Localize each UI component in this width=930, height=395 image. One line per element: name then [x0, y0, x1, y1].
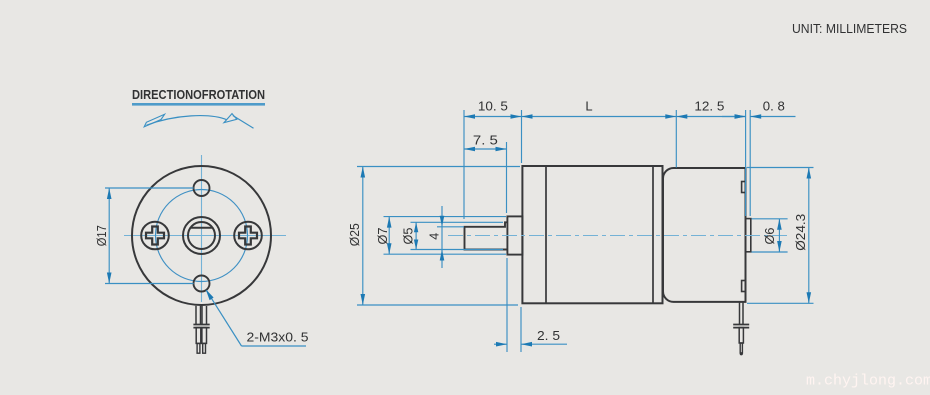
rotation arrow tail	[233, 116, 254, 129]
dim24.3 arrows	[807, 168, 812, 179]
dim 0.8 arrows	[735, 114, 746, 119]
dim5 line	[415, 222, 417, 249]
dim L line	[522, 116, 677, 118]
svg-text:DIRECTIONOFROTATION: DIRECTIONOFROTATION	[132, 87, 265, 102]
dim24.3 line	[808, 168, 810, 304]
side view centerline	[448, 235, 788, 237]
front view vertical centerline	[201, 155, 203, 302]
motor connector pin	[740, 343, 742, 353]
top mounting hole	[194, 180, 210, 196]
svg-text:Ø5: Ø5	[401, 227, 415, 244]
motor terminal tab bottom	[742, 281, 746, 292]
motor terminal tab top	[742, 182, 746, 193]
dim2.5 arrows	[496, 342, 507, 347]
dim6 arrows	[777, 219, 782, 230]
gearbox outline	[522, 166, 662, 303]
svg-text:Ø7: Ø7	[376, 227, 390, 244]
motor wire lines	[739, 302, 741, 325]
dim4 arrows	[440, 216, 445, 227]
dim 10.5 arrows	[464, 114, 475, 119]
dim 12.5 line	[676, 116, 745, 118]
shaft collar	[507, 216, 522, 254]
svg-text:Ø6: Ø6	[763, 227, 777, 244]
svg-text:Ø17: Ø17	[95, 225, 109, 246]
svg-text:4: 4	[428, 233, 442, 240]
bolt circle	[156, 190, 248, 282]
motor connector body	[739, 328, 743, 343]
front view motor face outline	[132, 166, 271, 305]
leader arrow	[206, 289, 214, 300]
dim7 arrows	[387, 217, 392, 228]
front connector crossbar	[193, 324, 209, 326]
left screw	[141, 222, 169, 250]
front view horizontal centerline	[124, 235, 286, 237]
svg-text:m.chyjlong.com: m.chyjlong.com	[806, 373, 930, 390]
dim 0.8 lines	[722, 116, 746, 118]
shaft flat chord	[191, 227, 213, 229]
svg-text:L: L	[585, 99, 592, 114]
ext line collar face top	[506, 142, 508, 213]
dim5 arrows	[414, 222, 418, 232]
dim17 line	[108, 188, 110, 284]
ext line boss face	[749, 110, 751, 216]
front connector pins	[197, 343, 200, 353]
dim5 ext lines	[411, 221, 504, 223]
gearbox front flange line	[545, 166, 547, 303]
dim25 line	[362, 167, 364, 306]
gearbox rear flange line	[652, 166, 654, 303]
output shaft outline	[465, 222, 508, 249]
dim25 arrows	[361, 167, 366, 178]
rotation arrow left head	[144, 114, 164, 127]
leader line	[206, 290, 241, 346]
dim6 line	[778, 219, 780, 252]
dim2.5 lines	[494, 343, 507, 345]
svg-text:Ø25: Ø25	[348, 223, 362, 246]
dim7 line	[388, 217, 390, 255]
svg-text:Ø24.3: Ø24.3	[794, 214, 808, 251]
front connector bodies	[196, 328, 201, 344]
svg-text:7. 5: 7. 5	[473, 132, 498, 147]
svg-text:2-M3x0. 5: 2-M3x0. 5	[247, 330, 309, 345]
rotation arrow right head	[224, 114, 237, 123]
dim L arrows	[522, 114, 533, 119]
dim4 ext line	[437, 226, 464, 228]
ext line motor joint	[675, 110, 677, 168]
dim 12.5 arrows	[676, 114, 687, 119]
label underline	[132, 103, 265, 106]
dim7 ext lines	[384, 216, 507, 218]
shaft boss circle	[183, 217, 220, 254]
front wire lines	[195, 306, 197, 325]
right screw	[234, 222, 262, 250]
shaft circle	[188, 222, 215, 249]
motor connector crossbar	[733, 324, 749, 326]
svg-text:2. 5: 2. 5	[537, 328, 560, 343]
rear bearing boss	[746, 219, 751, 252]
dim6 ext lines	[752, 218, 788, 220]
dim17 arrows	[107, 188, 112, 199]
motor pin tip	[740, 352, 743, 355]
svg-text:10. 5: 10. 5	[478, 99, 508, 114]
dim24.3 ext lines	[747, 167, 814, 169]
rotation arc	[147, 116, 228, 126]
dim4 line	[441, 206, 443, 268]
dim2.5 ext lines	[506, 258, 508, 352]
svg-text:UNIT: MILLIMETERS: UNIT: MILLIMETERS	[792, 22, 907, 36]
svg-text:0. 8: 0. 8	[763, 99, 785, 114]
dim 7.5 arrows	[464, 147, 475, 152]
bottom mounting hole	[194, 276, 210, 292]
dim17 extension lines	[105, 187, 194, 189]
ext line shaft tip	[463, 110, 465, 219]
ext line motor end face	[745, 110, 747, 216]
motor can outline	[663, 168, 746, 302]
svg-text:12. 5: 12. 5	[694, 99, 724, 114]
dim 7.5 line	[464, 148, 507, 150]
dim25 ext lines	[357, 166, 520, 168]
dim 10.5 line	[464, 116, 522, 118]
ext line gearbox front face	[521, 110, 523, 163]
